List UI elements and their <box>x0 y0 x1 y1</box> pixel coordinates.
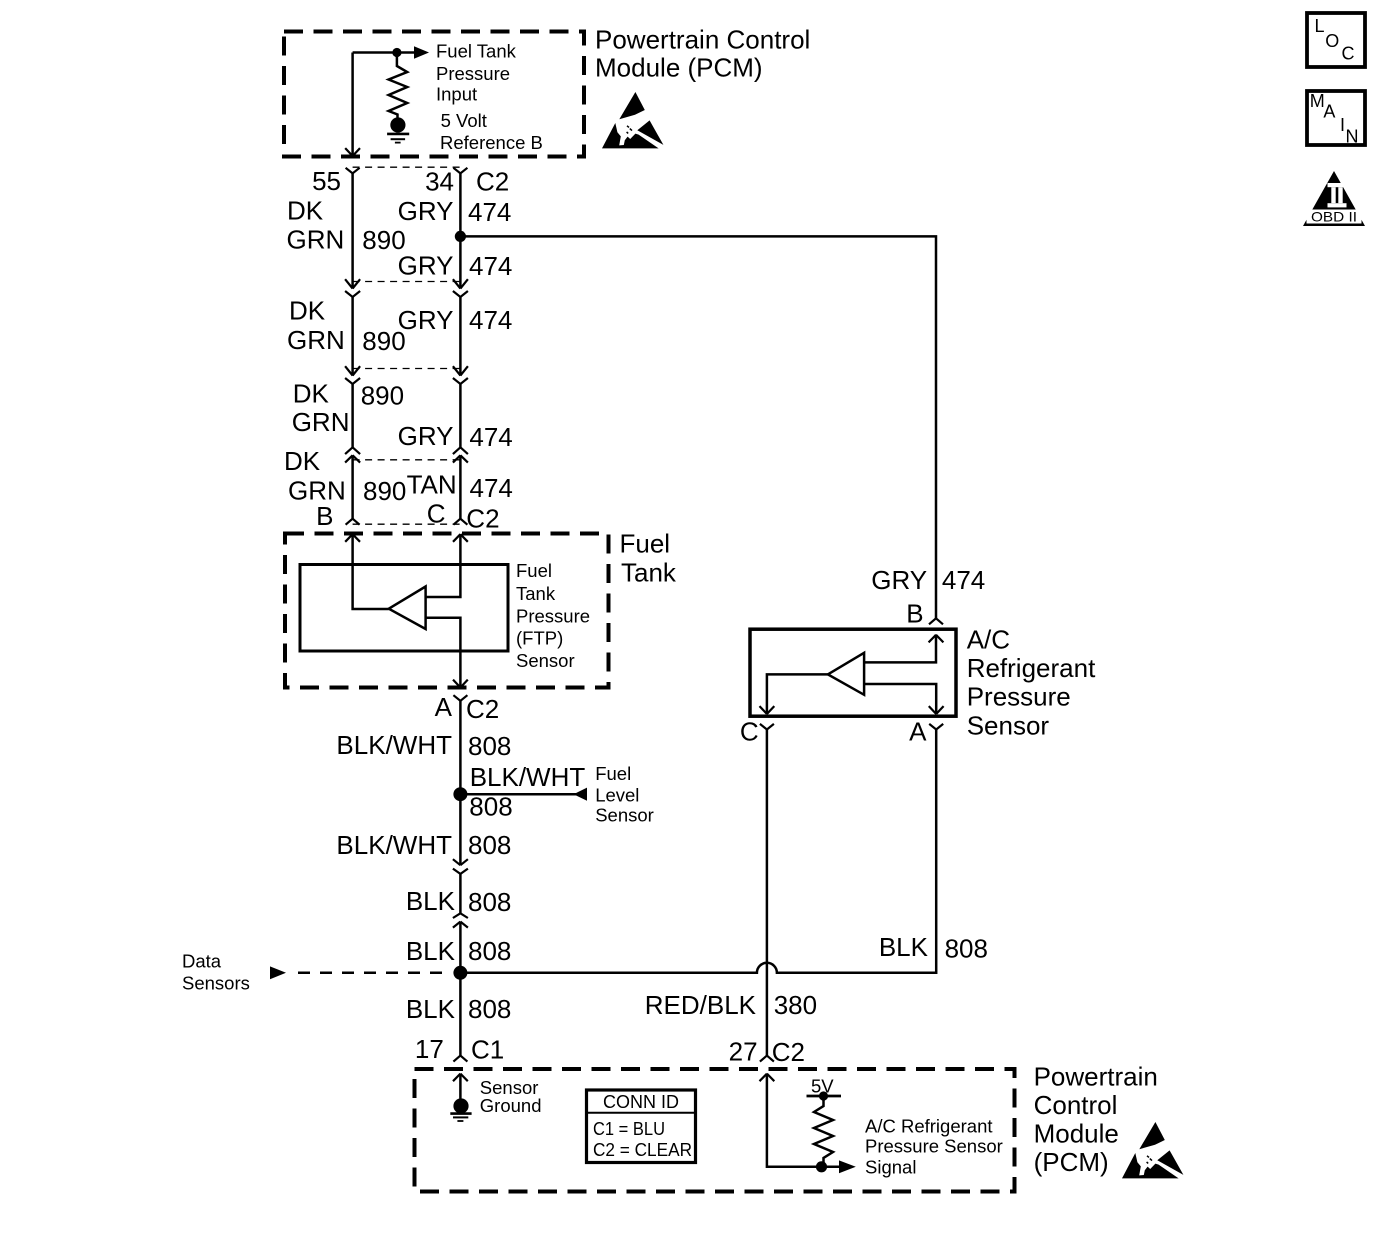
svg-text:380: 380 <box>774 990 817 1020</box>
MAIN reference box <box>1307 91 1365 147</box>
svg-text:C2 = CLEAR: C2 = CLEAR <box>593 1139 692 1160</box>
fuel tank connector line <box>353 523 461 525</box>
wire: C lead into FTP sensor <box>426 534 461 597</box>
svg-text:890: 890 <box>363 476 406 506</box>
wire: GRY 474 segment 1 <box>459 173 462 288</box>
svg-text:Fuel: Fuel <box>620 529 671 559</box>
svg-text:Pressure Sensor: Pressure Sensor <box>865 1135 1003 1156</box>
svg-text:Level: Level <box>595 784 639 805</box>
arrow entering PCM pin 17 <box>453 1074 468 1082</box>
svg-text:Module: Module <box>1034 1118 1119 1148</box>
svg-text:CONN ID: CONN ID <box>603 1091 679 1112</box>
svg-text:GRN: GRN <box>292 407 350 437</box>
ground: 5 volt reference B symbol <box>390 117 405 132</box>
wire: A/C sensor output pin A <box>864 684 936 714</box>
svg-text:C1 = BLU: C1 = BLU <box>593 1118 665 1139</box>
svg-text:C1: C1 <box>471 1035 504 1065</box>
svg-text:N: N <box>1346 127 1359 147</box>
arrow entering A/C sensor pin B <box>929 635 944 643</box>
svg-text:Sensor: Sensor <box>595 805 654 826</box>
connector fork pin 55 <box>346 168 360 174</box>
ESD warning symbol top <box>602 92 663 148</box>
svg-text:808: 808 <box>468 887 511 917</box>
label: Fuel Level Sensor <box>595 763 654 826</box>
wire: FTP sensor output to pin A <box>426 618 461 688</box>
FTP sensor amplifier triangle <box>389 587 426 630</box>
connector fork 17 C1 <box>453 1056 467 1062</box>
svg-text:Sensor: Sensor <box>516 650 575 671</box>
label: Fuel Tank Pressure (FTP) Sensor <box>516 560 590 671</box>
svg-text:Sensors: Sensors <box>182 972 250 993</box>
Powertrain Control Module (PCM) bottom dashed box <box>415 1069 1015 1192</box>
svg-text:C: C <box>1342 44 1355 64</box>
svg-text:Tank: Tank <box>621 558 677 588</box>
svg-text:DK: DK <box>293 379 330 409</box>
svg-text:474: 474 <box>469 305 512 335</box>
wire: BLK/WHT 808 from FTP pin A <box>459 701 462 865</box>
wire: RED/BLK 380 from A/C sensor pin C <box>766 730 769 1056</box>
label: Sensor Ground <box>480 1077 542 1116</box>
label: 5 Volt Reference B <box>440 110 543 153</box>
svg-text:TAN: TAN <box>407 470 457 500</box>
svg-text:474: 474 <box>468 197 511 227</box>
svg-text:Pressure: Pressure <box>516 605 590 626</box>
svg-text:A: A <box>435 692 453 722</box>
node: junction GRY 474 branch <box>455 231 466 242</box>
wire: TAN 474 segment 4 <box>459 455 462 518</box>
node: 5V supply junction <box>819 1091 828 1100</box>
wire: pin 55 lead inside PCM <box>351 53 354 157</box>
ESD warning symbol bottom <box>1122 1122 1183 1178</box>
svg-text:BLK/WHT: BLK/WHT <box>470 762 586 792</box>
svg-text:Fuel: Fuel <box>595 763 631 784</box>
svg-text:I: I <box>1340 115 1345 135</box>
in-line connector 3 <box>353 368 461 370</box>
wire: BLK 808 to ground junction <box>459 922 462 1056</box>
svg-text:808: 808 <box>469 792 512 822</box>
in-line connector 4 <box>353 459 461 461</box>
arrowhead Fuel Tank Pressure Input <box>414 46 429 59</box>
label: Powertrain Control Module (PCM) bottom <box>1034 1061 1158 1177</box>
node: junction at resistor top <box>392 48 401 57</box>
svg-text:Fuel: Fuel <box>516 560 552 581</box>
wire: horizontal to Fuel Tank Pressure Input <box>353 51 414 54</box>
svg-text:RED/BLK: RED/BLK <box>645 990 757 1020</box>
wire: GRY 474 segment 2 <box>459 297 462 376</box>
splice connector up <box>453 922 468 928</box>
wire: dashed to data sensors <box>298 972 452 975</box>
A/C refrigerant pressure sensor box <box>750 629 956 716</box>
Powertrain Control Module (PCM) top dashed box <box>284 32 584 157</box>
svg-text:A: A <box>909 717 927 747</box>
svg-text:BLK/WHT: BLK/WHT <box>336 830 452 860</box>
svg-text:Refrigerant: Refrigerant <box>967 653 1096 683</box>
svg-text:808: 808 <box>468 936 511 966</box>
svg-text:Ground: Ground <box>480 1095 542 1116</box>
svg-text:BLK/WHT: BLK/WHT <box>336 730 452 760</box>
svg-text:B: B <box>906 599 923 629</box>
svg-text:BLK: BLK <box>406 936 456 966</box>
svg-text:(PCM): (PCM) <box>1034 1147 1109 1177</box>
svg-text:890: 890 <box>361 380 404 410</box>
svg-text:Input: Input <box>436 84 477 105</box>
wire: A/C sensor pin C lead <box>767 674 828 714</box>
svg-text:Powertrain: Powertrain <box>1034 1061 1158 1091</box>
svg-text:BLK: BLK <box>879 932 929 962</box>
svg-text:808: 808 <box>468 830 511 860</box>
label: A/C Refrigerant Pressure Sensor <box>967 624 1096 740</box>
svg-text:Reference B: Reference B <box>440 132 543 153</box>
svg-text:474: 474 <box>469 422 512 452</box>
in-line connector 2 <box>353 281 461 283</box>
FTP sensor solid box <box>300 565 508 652</box>
svg-text:A/C Refrigerant: A/C Refrigerant <box>865 1115 993 1136</box>
svg-text:808: 808 <box>468 731 511 761</box>
svg-text:Pressure: Pressure <box>436 63 510 84</box>
svg-text:BLK: BLK <box>406 994 456 1024</box>
wire: A/C refrigerant pressure sensor signal lead <box>767 1074 839 1167</box>
wire: DK GRN 890 segment 2 <box>351 297 354 376</box>
svg-text:890: 890 <box>362 326 405 356</box>
svg-text:Module (PCM): Module (PCM) <box>595 53 763 83</box>
wire: ground bus to A/C sensor pin A with hop over C wire <box>460 730 936 973</box>
connector C2 line (pins 55/34) <box>353 166 461 168</box>
svg-text:A: A <box>1323 102 1335 122</box>
svg-text:DK: DK <box>284 446 321 476</box>
svg-text:DK: DK <box>289 296 326 326</box>
arrows entering fuel tank <box>345 534 360 542</box>
wire: sensor ground lead <box>459 1074 462 1099</box>
svg-text:Tank: Tank <box>516 583 556 604</box>
svg-text:Control: Control <box>1034 1090 1118 1120</box>
Fuel Tank dashed box <box>285 534 609 688</box>
svg-text:C2: C2 <box>476 166 509 196</box>
arrowhead signal <box>839 1160 856 1173</box>
wire: BLK 808 <box>459 874 462 913</box>
svg-text:Pressure: Pressure <box>967 682 1071 712</box>
label: Powertrain Control Module (PCM) top <box>595 25 810 83</box>
svg-text:Powertrain Control: Powertrain Control <box>595 25 810 55</box>
arrowhead fuel level sensor branch <box>574 788 588 801</box>
svg-text:OBD II: OBD II <box>1311 208 1357 224</box>
connector fork pin 34 <box>453 168 467 174</box>
OBD II symbol <box>1303 171 1365 226</box>
svg-text:808: 808 <box>945 934 988 964</box>
svg-text:27: 27 <box>729 1037 758 1067</box>
node: resistor bottom junction <box>816 1161 827 1172</box>
svg-text:(FTP): (FTP) <box>516 628 563 649</box>
svg-text:Sensor: Sensor <box>967 710 1050 740</box>
splice connector down <box>453 859 468 865</box>
arrowhead data sensors <box>270 966 286 979</box>
connector fork 27 C2 <box>760 1056 774 1062</box>
wire: DK GRN 890 segment 3 <box>351 384 354 447</box>
svg-text:17: 17 <box>415 1034 444 1064</box>
svg-text:474: 474 <box>942 565 985 595</box>
CONN ID table <box>587 1090 696 1163</box>
svg-text:474: 474 <box>470 473 513 503</box>
connector fork B above A/C sensor <box>929 618 943 624</box>
wire: GRY 474 segment 3 <box>459 384 462 447</box>
connector forks C and A below A/C sensor <box>760 724 774 730</box>
svg-text:GRY: GRY <box>398 305 454 335</box>
label: A/C Refrigerant Pressure Sensor Signal <box>865 1115 1003 1177</box>
node: fuel level sensor splice <box>453 787 467 801</box>
svg-text:GRY: GRY <box>398 421 454 451</box>
svg-text:Data: Data <box>182 950 222 971</box>
svg-text:O: O <box>1325 31 1339 51</box>
svg-text:474: 474 <box>469 251 512 281</box>
svg-text:GRY: GRY <box>398 251 454 281</box>
arrow entering PCM pin 27 <box>760 1074 775 1082</box>
svg-text:C2: C2 <box>466 694 499 724</box>
resistor: 5V pull-up <box>814 1098 833 1167</box>
label: Fuel Tank Pressure Input <box>436 41 517 105</box>
svg-text:Fuel Tank: Fuel Tank <box>436 41 517 62</box>
connector fork A below fuel tank <box>453 695 467 701</box>
wire: branch to fuel level sensor <box>460 793 578 796</box>
svg-text:5 Volt: 5 Volt <box>441 110 487 131</box>
svg-text:C2: C2 <box>466 503 499 533</box>
svg-text:Signal: Signal <box>865 1156 916 1177</box>
svg-text:A/C: A/C <box>967 624 1010 654</box>
svg-text:55: 55 <box>312 166 341 196</box>
svg-text:34: 34 <box>425 167 454 197</box>
svg-text:C: C <box>740 717 759 747</box>
arrow at PCM box edge pin 55 <box>345 148 360 156</box>
5V supply bar <box>807 1095 842 1098</box>
svg-text:GRY: GRY <box>871 565 927 595</box>
svg-text:5V: 5V <box>811 1075 834 1096</box>
svg-text:GRY: GRY <box>398 196 454 226</box>
label: Data Sensors <box>182 950 250 993</box>
svg-text:DK: DK <box>287 196 324 226</box>
wire: GRY 474 branch to A/C refrigerant pressure sensor pin B <box>460 236 936 618</box>
LOC reference box <box>1307 13 1365 67</box>
arrows exiting A/C sensor <box>760 706 775 714</box>
wire: DK GRN 890 segment 4 <box>351 455 354 518</box>
svg-text:GRN: GRN <box>287 225 345 255</box>
A/C sensor amplifier triangle <box>828 653 864 695</box>
wire: DK GRN 890 segment 1 <box>351 173 354 288</box>
node: data sensors ground junction <box>453 966 467 980</box>
svg-text:B: B <box>316 501 333 531</box>
wire: B lead into FTP sensor <box>353 534 389 609</box>
wire: B lead inside A/C sensor <box>864 635 936 663</box>
svg-text:GRN: GRN <box>287 325 345 355</box>
svg-text:BLK: BLK <box>406 886 456 916</box>
resistor: 5 volt reference pull-up <box>389 53 408 118</box>
arrow exiting fuel tank <box>453 680 468 688</box>
svg-text:C2: C2 <box>772 1037 805 1067</box>
ground: sensor ground symbol <box>453 1098 468 1113</box>
svg-text:L: L <box>1315 16 1325 36</box>
svg-text:808: 808 <box>468 994 511 1024</box>
